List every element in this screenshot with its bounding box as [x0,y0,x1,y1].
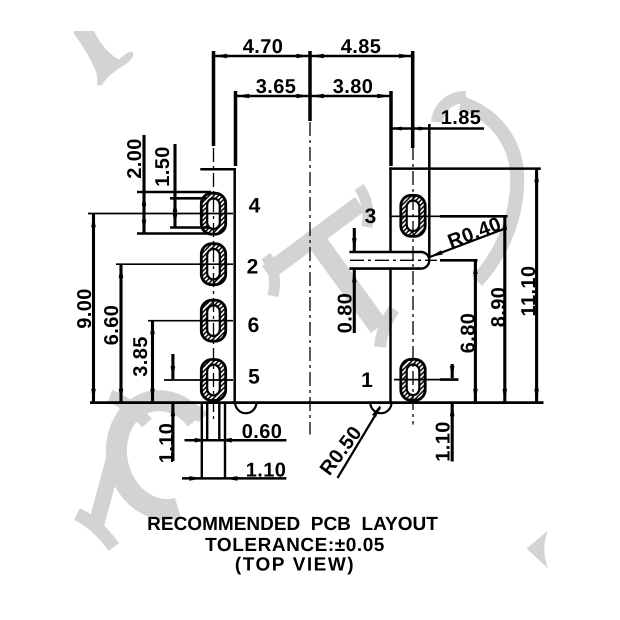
pad 1 [401,359,425,400]
body outline left top edge [200,168,236,171]
watermark letter I bottom-left [77,396,147,547]
pad 3 center line horizontal [392,215,441,217]
baseline [90,401,544,404]
body outline right-part right edge [428,124,431,257]
extension tick 6.80 slot [440,259,478,262]
dimension line 0.60 [185,439,287,442]
dimension line 1.10 left upper part [171,354,174,379]
dimension line 6.80 vertical [474,260,477,402]
body outline right-part left edge lower [389,269,392,403]
svg-text:8.90: 8.90 [488,287,510,328]
tick 1.50 bottom [170,226,208,229]
tick 1.50 top [170,197,206,200]
notch R0.50 right [370,403,391,414]
body outline left vertical edge [233,168,236,404]
watermark right letter arc [461,103,517,281]
dimension line 3.65 [236,95,311,98]
svg-text:1.85: 1.85 [441,107,482,129]
pad 2 center line horizontal [116,263,233,265]
svg-text:1.10: 1.10 [246,460,287,482]
svg-text:(TOP VIEW): (TOP VIEW) [235,555,355,576]
dimension line 2.00 vertical [142,135,145,234]
extension line x213.5 top [212,51,216,146]
slot top edge [349,251,421,254]
pad 4 [201,193,225,234]
body outline right top edge with 11.10 extension [389,167,541,170]
extension line x412.7 top [411,51,415,148]
extension line x235.5 [234,91,238,166]
dimension line 4.70 [214,55,311,58]
slot rounded end R0.40 [421,252,429,269]
extension line hole right below baseline [218,403,220,442]
dimension line 6.60 vertical [119,264,122,402]
svg-text:4.70: 4.70 [243,36,284,58]
dimension line 3.80 [310,95,391,98]
arrowheads [91,54,539,481]
svg-text:3.80: 3.80 [333,76,374,98]
center line pads left column [213,148,215,422]
dimension line 9.00 vertical [92,214,95,403]
dimension line 1.10 left lower part [171,403,174,461]
svg-text:6.80: 6.80 [458,313,480,354]
pad 2 [201,244,225,285]
watermark chevron bottom-right [527,531,549,569]
dimension line 8.90 vertical [503,216,506,402]
svg-text:2: 2 [247,255,259,278]
pad 5 center line horizontal [164,379,233,381]
tick 2.00 top [137,191,211,194]
svg-text:1.10: 1.10 [433,421,455,462]
extension line hole left below baseline [206,403,208,442]
extension line pad right below baseline [224,403,226,480]
center line slot [350,259,437,261]
svg-text:1.50: 1.50 [152,146,174,187]
svg-text:3: 3 [365,205,377,228]
body outline right-part left edge upper [389,167,392,252]
pad 6 [201,300,225,341]
svg-text:4.85: 4.85 [341,36,382,58]
svg-text:5: 5 [248,366,260,389]
notch R0.50 left [235,403,256,414]
dimension line 1.10 right lower part [451,403,454,462]
watermark letter T center [266,187,394,347]
svg-text:TOLERANCE:±0.05: TOLERANCE:±0.05 [205,535,385,556]
svg-text:1: 1 [361,369,373,392]
svg-text:0.80: 0.80 [335,293,357,334]
extension line x391 [389,91,393,166]
dimension line 4.85 [310,55,413,58]
dimension line 1.50 vertical [173,144,176,228]
leader R0.50 [338,407,381,478]
dimension line 11.10 vertical [535,169,538,403]
tick 2.00 bottom [137,232,210,235]
pad 3 [401,195,425,236]
watermark right letter top hook [437,97,466,122]
leader R0.40 [430,229,504,257]
svg-text:6: 6 [248,314,260,337]
dimension line 1.10 bottom [182,477,286,480]
pad 4 center line horizontal [88,213,233,215]
dimension line 0.80 lower part [353,269,356,333]
svg-text:3.65: 3.65 [256,76,297,98]
svg-text:RECOMMENDED PCB LAYOUT: RECOMMENDED PCB LAYOUT [147,514,438,535]
extension line pad left below baseline [201,403,203,480]
svg-text:0.60: 0.60 [242,421,283,443]
pad 5 [201,360,225,401]
watermark piece top-left serif foot [74,31,133,86]
extension tick 8.90 pad3 [440,215,508,218]
pad 6 center line horizontal [148,320,233,322]
svg-text:2.00: 2.00 [124,138,146,179]
extension line x310 top [308,51,312,121]
svg-text:6.60: 6.60 [101,305,123,346]
svg-text:9.00: 9.00 [74,288,96,329]
dimension line 1.10 right upper part [451,364,454,378]
pad 1 center line horizontal [394,379,440,381]
extension tick 1.10 right pad1 [440,378,459,381]
dimension line 3.85 vertical [151,321,154,403]
svg-text:3.85: 3.85 [130,336,152,377]
svg-text:11.10: 11.10 [518,266,540,317]
svg-text:4: 4 [249,195,261,218]
watermark letter C bottom-left [116,401,203,510]
center line pads right column [412,146,414,425]
dimension line 1.85 [391,127,484,130]
svg-text:1.10: 1.10 [156,423,178,464]
slot bottom edge [349,267,421,270]
dimension line 0.80 upper part [353,228,356,252]
center line middle [309,122,311,435]
